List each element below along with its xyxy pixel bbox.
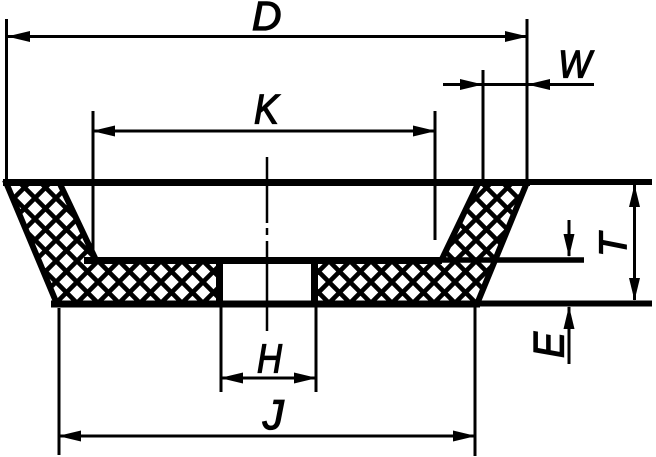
extension line D left (5, 19, 8, 181)
svg-text:T: T (593, 230, 636, 257)
dimension line E (564, 220, 575, 364)
wheel cross-section hatched body (5, 180, 528, 304)
extension line J right (474, 306, 477, 456)
label K (254, 86, 280, 133)
svg-text:W: W (558, 42, 594, 86)
dimension line T (629, 185, 640, 301)
right outer slant edge (477, 180, 528, 304)
label E (rotated) (525, 331, 573, 358)
extension line J left (58, 308, 61, 455)
extension line H left (220, 307, 223, 392)
right inner slant edge (442, 184, 478, 259)
extension line H right (315, 307, 318, 392)
dimension line K (92, 126, 436, 137)
extension line D/W right (526, 19, 529, 180)
hole left edge (216, 257, 223, 303)
svg-text:K: K (254, 86, 280, 133)
bottom edge extension line (for T and E) (480, 301, 652, 307)
band top extension line (for E) (442, 257, 584, 263)
dimension line W (443, 79, 594, 90)
label W (558, 42, 594, 86)
label J (262, 391, 285, 438)
label H (257, 337, 283, 382)
wheel top edge (3, 179, 530, 186)
label D (252, 0, 281, 39)
dimension line J (58, 431, 476, 442)
dimension line H (220, 373, 317, 384)
dimension line D (7, 31, 528, 42)
svg-text:E: E (525, 331, 573, 358)
label T (rotated) (593, 230, 636, 257)
top edge extension line (for T) (530, 179, 652, 185)
extension line K left (92, 111, 95, 251)
svg-text:J: J (262, 391, 285, 438)
recess seat edge (band top) (84, 257, 442, 264)
left outer slant edge (5, 180, 57, 304)
hole right edge (311, 257, 318, 303)
extension line W left (482, 70, 485, 180)
extension line K right (434, 111, 437, 240)
svg-text:H: H (257, 337, 283, 382)
wheel bottom edge (51, 301, 480, 308)
left inner slant edge (60, 184, 96, 259)
svg-text:D: D (252, 0, 281, 39)
centerline (266, 157, 269, 331)
